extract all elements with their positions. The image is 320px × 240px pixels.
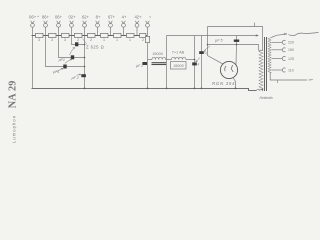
wire: T2 drop and link B [46, 36, 85, 67]
resistor R10 (vertical, at chain end) [145, 36, 149, 42]
svg-text:42+: 42+ [134, 15, 142, 20]
capacitor C8 (series above tube) [236, 36, 238, 40]
primary tap 150V [272, 49, 283, 51]
primary tap 110V [272, 69, 283, 71]
choke L2 [172, 57, 186, 59]
value label C2 µF1 [59, 58, 65, 62]
transformer TR1 filament winding [257, 89, 263, 90]
choke L2 value box 15000 [171, 62, 187, 70]
transformer TR1 core [264, 37, 266, 91]
node: T4 link / T5 drop [84, 44, 86, 46]
W1 arrowhead at winding [256, 34, 259, 36]
svg-text:06+ *: 06+ * [29, 15, 39, 20]
svg-text:02+: 02+ [68, 15, 76, 20]
tick on mains lead [277, 80, 279, 83]
wire: T1 drop to common rail [32, 36, 34, 89]
node: Va / rail [194, 88, 196, 90]
value label C7 µF5 [215, 39, 223, 43]
resistor R1 [36, 33, 44, 37]
caption under transformer [260, 96, 274, 100]
svg-text:4+: 4+ [122, 15, 127, 20]
wire: tube cathode drop [233, 78, 235, 88]
capacitor C6 (on Va) [192, 62, 197, 65]
svg-text:0,: 0, [205, 51, 208, 55]
paper background [0, 0, 320, 145]
svg-text:3: 3 [51, 38, 53, 42]
wire: W2 descender to tube anode [208, 27, 224, 65]
socket terminal T8 [122, 21, 126, 36]
svg-text:86+: 86+ [42, 15, 50, 20]
node: T10 drop / rail [147, 88, 149, 90]
value label L1 15000 [152, 52, 163, 56]
svg-text:RGN 354: RGN 354 [212, 81, 235, 86]
wire: smoothing branch Vb [201, 36, 203, 89]
wire: frame left vertical [166, 36, 168, 89]
socket terminal T10 [146, 21, 150, 36]
svg-text:2: 2 [90, 38, 92, 42]
node: cathode / rail [235, 88, 237, 90]
wire: between chokes [166, 59, 172, 61]
wire: voltage divider chain bus [32, 35, 148, 37]
value label C6 [197, 63, 199, 67]
wire: smoothing branch Va [194, 36, 196, 89]
wire: primary bottom mains lead [270, 73, 307, 81]
tube U1 filament [225, 66, 226, 71]
wire: mains lead (wavy) [289, 32, 319, 35]
node: frame / rail [166, 88, 168, 90]
resistor R5 [88, 33, 96, 37]
svg-text:06+: 06+ [55, 15, 63, 20]
primary tap 125V [272, 58, 283, 60]
svg-text:1: 1 [116, 38, 118, 42]
socket terminal T3 [57, 21, 61, 36]
capacitor C7 (on Vb) [199, 51, 204, 54]
callout arrow to C3 [56, 68, 63, 72]
socket terminal T5 [83, 21, 87, 36]
resistor R8 [127, 33, 135, 37]
svg-text:2: 2 [77, 38, 79, 42]
wire: T3 drop and link A [59, 36, 85, 58]
socket terminal T4 [70, 21, 74, 36]
svg-text:µF 2: µF 2 [136, 64, 143, 68]
wire: common negative rail [32, 88, 257, 90]
mains voltage selector switch S1 arm [271, 34, 287, 38]
value label C5 µF2 [136, 64, 143, 68]
svg-text:15000: 15000 [152, 52, 163, 56]
svg-text:15000: 15000 [173, 64, 184, 68]
node: Vb / rail [201, 88, 203, 90]
svg-text:7+1 AB: 7+1 AB [172, 51, 185, 55]
wire: T4 drop and top link [72, 36, 85, 45]
node: W5 / C8 branch [236, 44, 238, 46]
resistor R2 [49, 33, 57, 37]
value label C3 µF1 [53, 70, 59, 74]
svg-text:1: 1 [103, 38, 105, 42]
label tube U1 type [212, 81, 235, 86]
primary tap 220V [272, 41, 283, 43]
node: W2 stub [207, 44, 209, 46]
socket terminal T9 [135, 21, 139, 36]
transformer TR1 primary winding [268, 38, 271, 73]
callout arrow to C1 [70, 47, 75, 55]
node: link A / T5 drop [84, 57, 86, 59]
callout arrow to C7 [204, 46, 210, 52]
svg-text:67+: 67+ [108, 15, 116, 20]
mains lead end dash [309, 79, 313, 81]
transformer TR1 secondary winding [259, 50, 263, 90]
capacitor C1 (on T4 link) [75, 42, 78, 46]
svg-text:3: 3 [38, 38, 40, 42]
resistor R3 [62, 33, 70, 37]
wire: T5 drop to common rail [84, 36, 86, 89]
svg-text:4: 4 [197, 63, 199, 67]
svg-text:1: 1 [129, 38, 131, 42]
svg-text:125: 125 [288, 57, 294, 61]
callout arrow to C4 [77, 74, 81, 76]
svg-text:110: 110 [288, 68, 294, 72]
resistor R6 [101, 33, 109, 37]
label L2 winding 7+1 AB [172, 51, 185, 55]
wire: C8 to tube anode pin [235, 42, 238, 65]
rectifier tube U1 envelope [220, 61, 237, 78]
callout arrow to C2 [65, 59, 72, 63]
choke L1 [152, 57, 166, 59]
capacitor C4 (series in T5 drop) [81, 74, 86, 77]
svg-text:2: 2 [142, 38, 144, 42]
node: link B / T5 drop [84, 66, 86, 68]
svg-text:Z 625 Ω: Z 625 Ω [86, 44, 104, 49]
wire: choke L2 to node Va [186, 59, 195, 61]
resistor R4 [75, 33, 83, 37]
svg-text:µF 5: µF 5 [215, 39, 223, 43]
resistor R7 [114, 33, 122, 37]
stub node on W2 [254, 23, 256, 27]
capacitor C5 (on T10 drop) [142, 62, 147, 65]
svg-text:µF 2: µF 2 [72, 76, 79, 80]
node: choke line / Va [194, 59, 196, 61]
choke L1 iron core bars [152, 62, 167, 64]
capacitor C3 (on link B) [63, 65, 66, 69]
callout line to chain [83, 39, 88, 45]
wire W1: anode feed bus [167, 35, 259, 37]
capacitor C2 (on link A) [71, 55, 74, 59]
wire W5: mid link to secondary top [208, 45, 262, 51]
value label C4 µF2 [72, 76, 79, 80]
svg-text:3: 3 [64, 38, 66, 42]
value label: divider total Z 625 Ohm [86, 44, 104, 49]
socket terminal T1 [31, 21, 35, 36]
small mark beside C7 [205, 51, 208, 55]
svg-text:220: 220 [288, 41, 294, 45]
tube U1 anode [231, 65, 233, 72]
resistor R9 [140, 33, 146, 37]
svg-text:150: 150 [288, 48, 294, 52]
socket terminal T7 [109, 21, 113, 36]
svg-text:8+: 8+ [96, 15, 101, 20]
socket terminal T2 [44, 21, 48, 36]
svg-text:62+: 62+ [82, 15, 90, 20]
svg-text:NA 29: NA 29 [8, 80, 19, 108]
callout arrow to C6 [196, 58, 200, 62]
wire: T10 drop to common rail [147, 43, 149, 89]
node: T5 drop / rail [84, 88, 86, 90]
svg-text:µF1: µF1 [59, 58, 65, 62]
svg-text:Lumophon: Lumophon [11, 115, 16, 143]
socket terminal T6 [96, 21, 100, 36]
wire W2: top loop to secondary [208, 27, 263, 52]
wire: filter line to choke L1 [148, 59, 153, 61]
svg-text:Netztrafo: Netztrafo [260, 96, 274, 100]
